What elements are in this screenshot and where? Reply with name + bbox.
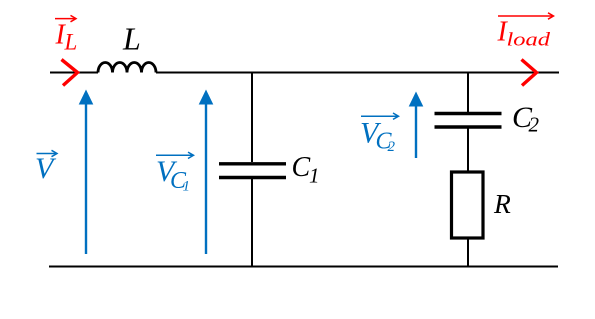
wire top middle segment: [156, 72, 559, 74]
label V_C1: [156, 152, 194, 194]
svg-text:1: 1: [183, 179, 191, 195]
wire bottom: [49, 266, 558, 268]
svg-text:2: 2: [529, 113, 540, 137]
wire C2 to R: [467, 129, 469, 173]
arrowhead I_load chevron: [522, 60, 537, 86]
capacitor C1: [219, 164, 286, 178]
svg-text:1: 1: [309, 163, 320, 187]
capacitor C2: [435, 114, 502, 128]
svg-text:R: R: [493, 188, 511, 219]
resistor R: [452, 172, 484, 238]
wire R to bottom: [467, 238, 469, 267]
svg-text:2: 2: [388, 139, 396, 155]
branch wire C1 bottom: [251, 179, 253, 267]
node branch wire C2 top: [467, 73, 469, 113]
node branch wire C1 top: [251, 73, 253, 163]
svg-text:L: L: [122, 20, 141, 56]
label R: [493, 188, 511, 219]
label V: [35, 150, 57, 185]
svg-text:C: C: [292, 152, 311, 183]
label I_load: [497, 13, 554, 51]
label V_C2: [360, 113, 399, 155]
arrowhead I_L chevron: [62, 60, 78, 86]
arrow V_C1: [199, 90, 214, 255]
arrow V: [79, 90, 94, 255]
inductor L: [98, 63, 156, 73]
label I_L: [55, 15, 78, 54]
wire top left segment: [50, 72, 98, 74]
label L: [122, 20, 141, 56]
label C2: [512, 101, 540, 137]
svg-text:load: load: [507, 30, 551, 51]
arrow V_C2: [409, 92, 424, 159]
label C1: [292, 152, 320, 187]
svg-text:L: L: [64, 30, 78, 55]
